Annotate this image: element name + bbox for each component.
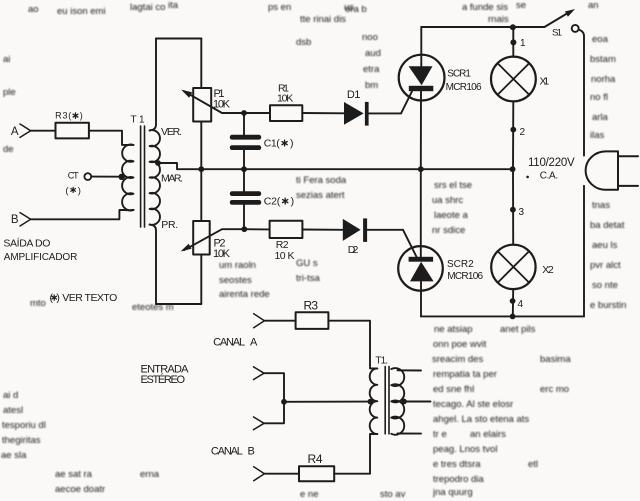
secondary bottom lead down bbox=[150, 225, 156, 304]
svg-text:bstam: bstam bbox=[590, 54, 616, 65]
svg-text:aeu ls: aeu ls bbox=[592, 240, 618, 251]
svg-text:ai: ai bbox=[3, 54, 10, 65]
wire node to X2 bbox=[512, 169, 514, 245]
lamp bus down to X1 bbox=[512, 27, 514, 57]
transformer T1 secondary winding bbox=[150, 130, 160, 225]
svg-text:B: B bbox=[248, 446, 255, 458]
svg-text:etl: etl bbox=[528, 459, 538, 470]
node dot P2/R2/C2 bbox=[241, 226, 247, 232]
svg-text:AMPLIFICADOR: AMPLIFICADOR bbox=[4, 252, 78, 263]
wire R1 to D1 bbox=[302, 112, 344, 114]
thyristor SCR1 bbox=[399, 55, 445, 101]
svg-text:D1: D1 bbox=[347, 89, 361, 101]
wire node to R2 bbox=[244, 228, 269, 230]
T1 core bbox=[140, 126, 142, 227]
plug 110/220V bbox=[586, 151, 618, 189]
svg-text:10K: 10K bbox=[213, 248, 231, 260]
node 1 dot bbox=[510, 39, 516, 45]
svg-text:e burstin: e burstin bbox=[590, 300, 626, 311]
svg-text:ti Fera soda: ti Fera soda bbox=[296, 175, 347, 186]
svg-text:eu ison emi: eu ison emi bbox=[57, 6, 106, 17]
potentiometer P1 body bbox=[193, 88, 211, 122]
canal A chevron bbox=[254, 314, 265, 328]
SCR bus MAR to SCR2 bbox=[420, 169, 422, 257]
svg-text:basima: basima bbox=[540, 354, 571, 365]
svg-text:seostes: seostes bbox=[219, 275, 252, 286]
capacitor C2 bbox=[243, 169, 245, 191]
svg-text:dsb: dsb bbox=[296, 37, 311, 48]
lower T1 core bbox=[384, 367, 386, 434]
svg-text:sto av: sto av bbox=[380, 489, 406, 500]
svg-text:lagtai co: lagtai co bbox=[130, 2, 165, 13]
svg-text:tr e: tr e bbox=[433, 429, 447, 440]
S1 terminal circle bbox=[572, 25, 579, 32]
svg-text:so nte: so nte bbox=[592, 280, 618, 291]
svg-text:SAÍDA DO: SAÍDA DO bbox=[3, 236, 50, 249]
svg-text:sreacim des: sreacim des bbox=[432, 354, 483, 365]
CT terminal circle bbox=[84, 173, 91, 180]
svg-text:an elairs: an elairs bbox=[470, 429, 506, 440]
svg-text:ae sat ra: ae sat ra bbox=[55, 469, 93, 480]
wire X1 to node 2 bbox=[512, 101, 514, 169]
svg-text:D2: D2 bbox=[348, 244, 359, 256]
resistor R3(*) bbox=[56, 123, 89, 139]
diode D1 bbox=[344, 102, 364, 125]
svg-text:10 K: 10 K bbox=[275, 250, 295, 262]
svg-text:aecoe doatr: aecoe doatr bbox=[55, 484, 105, 495]
MAR tap wire to bus bbox=[158, 163, 512, 169]
SCR2 anode lead to bottom bus bbox=[420, 281, 422, 316]
junction dot bottom bus bbox=[510, 314, 516, 320]
wire A to R3 bbox=[31, 130, 56, 132]
svg-text:A: A bbox=[250, 337, 258, 349]
secondary tap lead bbox=[404, 401, 431, 403]
junction dot C-bus/MAR bbox=[241, 166, 247, 172]
svg-text:noo: noo bbox=[362, 32, 378, 43]
svg-text:): ) bbox=[290, 138, 294, 150]
svg-text:X2: X2 bbox=[542, 264, 554, 276]
svg-text:MCR106: MCR106 bbox=[447, 271, 483, 282]
svg-text:): ) bbox=[80, 110, 83, 120]
svg-text:C2(: C2( bbox=[264, 196, 281, 208]
top bus bbox=[421, 26, 544, 28]
svg-text:2: 2 bbox=[520, 127, 526, 138]
stereo mix chevron lower bbox=[254, 417, 265, 430]
SCR1 gate wire bbox=[401, 91, 412, 113]
svg-text:CANAL: CANAL bbox=[211, 446, 243, 458]
svg-text:GU s: GU s bbox=[296, 258, 318, 269]
mix junction dot bbox=[281, 399, 287, 405]
wire CT to primary tap bbox=[91, 176, 120, 178]
svg-text:C.A.: C.A. bbox=[540, 170, 558, 181]
svg-text:ahgel. La sto etena ats: ahgel. La sto etena ats bbox=[433, 414, 529, 425]
svg-text:ba detat: ba detat bbox=[590, 220, 625, 231]
svg-text:rnais: rnais bbox=[488, 14, 509, 25]
svg-text:ilas: ilas bbox=[590, 130, 605, 141]
wire to R3 bbox=[264, 320, 295, 322]
svg-text:srs el tse: srs el tse bbox=[434, 180, 472, 191]
svg-text:mto: mto bbox=[30, 298, 46, 309]
svg-text:(: ( bbox=[65, 186, 69, 197]
svg-text:a funde sis: a funde sis bbox=[462, 2, 508, 13]
svg-text:T1.: T1. bbox=[375, 355, 388, 366]
lamp X2 bbox=[491, 245, 535, 289]
resistor R3 (lower) bbox=[296, 312, 329, 329]
svg-text:e ne: e ne bbox=[300, 489, 319, 500]
svg-text:ps en: ps en bbox=[268, 2, 291, 13]
svg-text:tnas: tnas bbox=[592, 200, 610, 211]
junction dot top bus / lamp bus bbox=[510, 24, 516, 30]
svg-text:SCR2: SCR2 bbox=[447, 259, 474, 270]
svg-text:ne atsiap: ne atsiap bbox=[434, 324, 473, 335]
lower T1 secondary winding bbox=[391, 368, 404, 435]
svg-text:anet pils: anet pils bbox=[500, 324, 536, 335]
SCR2 gate wire bbox=[403, 230, 417, 257]
svg-text:): ) bbox=[291, 196, 295, 208]
svg-text:ed sne fhl: ed sne fhl bbox=[433, 384, 474, 395]
resistor R2 bbox=[270, 221, 303, 238]
svg-text:4: 4 bbox=[518, 299, 524, 310]
svg-text:arla: arla bbox=[592, 112, 609, 123]
wire R3 to T1 primary top bbox=[328, 321, 377, 369]
svg-text:ua shrc: ua shrc bbox=[432, 195, 463, 206]
wire P2 bottom to loop bottom bbox=[200, 255, 202, 305]
wire R3 to T1 primary top bbox=[89, 131, 134, 145]
svg-text:PR.: PR. bbox=[161, 219, 178, 231]
svg-text:no fl: no fl bbox=[590, 92, 608, 103]
svg-text:ae sla: ae sla bbox=[1, 450, 27, 461]
svg-text:ita: ita bbox=[168, 0, 179, 11]
resistor R4 bbox=[299, 466, 334, 481]
svg-text:nr sdice: nr sdice bbox=[432, 225, 465, 236]
svg-text:de: de bbox=[3, 144, 14, 155]
switch S1 blade bbox=[545, 14, 568, 28]
svg-text:peag. Lnos tvol: peag. Lnos tvol bbox=[433, 444, 497, 455]
wire mix to primary tap bbox=[284, 401, 370, 403]
secondary tap dot bbox=[401, 399, 407, 405]
svg-text:10K: 10K bbox=[277, 93, 293, 105]
junction dot lamp-bus/MAR bbox=[510, 166, 516, 172]
capacitor C1 bbox=[243, 113, 245, 135]
node 3 dot bbox=[510, 207, 516, 213]
svg-text:1: 1 bbox=[520, 38, 526, 49]
resistor R1 bbox=[270, 105, 302, 121]
svg-text:C1(: C1( bbox=[264, 138, 281, 150]
svg-text:T1: T1 bbox=[131, 115, 145, 126]
svg-text:eoa: eoa bbox=[592, 34, 609, 45]
svg-text:etra: etra bbox=[363, 64, 380, 75]
diode D2 bbox=[343, 219, 361, 241]
svg-text:ple: ple bbox=[3, 87, 16, 98]
svg-text:VER.: VER. bbox=[161, 126, 182, 138]
thyristor SCR2 bbox=[398, 246, 443, 291]
svg-text:tecago. Al ste elosr: tecago. Al ste elosr bbox=[433, 399, 513, 410]
svg-text:tesporiu dl: tesporiu dl bbox=[2, 420, 46, 431]
svg-text:): ) bbox=[56, 292, 60, 304]
junction dot SCR-bus/MAR bbox=[418, 166, 424, 172]
primary tap dot bbox=[368, 399, 374, 405]
svg-text:ai d: ai d bbox=[3, 390, 18, 401]
svg-text:3: 3 bbox=[519, 207, 525, 218]
svg-text:S1: S1 bbox=[552, 27, 562, 38]
wire R2 to D2 bbox=[302, 229, 342, 231]
wire R4 to T1 primary bottom bbox=[334, 434, 377, 474]
svg-text:R4: R4 bbox=[308, 452, 323, 466]
svg-text:erna: erna bbox=[140, 469, 160, 480]
svg-text:aud: aud bbox=[365, 48, 381, 59]
svg-text:MCR106: MCR106 bbox=[446, 82, 482, 93]
wire node to R1 bbox=[244, 112, 270, 114]
svg-text:norha: norha bbox=[591, 74, 616, 85]
svg-text:um raoln: um raoln bbox=[219, 260, 256, 271]
svg-text:SCR1: SCR1 bbox=[447, 68, 471, 79]
svg-text:): ) bbox=[78, 186, 81, 197]
svg-text:atesl: atesl bbox=[3, 405, 23, 416]
SCR1 cathode lead to MAR bus bbox=[420, 91, 422, 169]
secondary bottom lead bbox=[398, 433, 422, 435]
junction dot P-bus/MAR bbox=[198, 166, 204, 172]
node 2 dot bbox=[510, 127, 516, 133]
svg-text:airenta rede: airenta rede bbox=[219, 289, 270, 300]
bottom bus bbox=[421, 315, 584, 317]
svg-text:thegiritas: thegiritas bbox=[2, 435, 41, 446]
svg-text:se: se bbox=[516, 0, 526, 11]
lamp X1 bbox=[491, 57, 536, 102]
svg-text:bm: bm bbox=[365, 80, 378, 91]
svg-text:erc mo: erc mo bbox=[540, 384, 569, 395]
node dot P1/R1/C1 bbox=[241, 110, 247, 116]
input A chevron bbox=[20, 124, 31, 137]
wire X2 to bottom bus bbox=[512, 289, 514, 316]
svg-text:R3: R3 bbox=[304, 298, 319, 312]
svg-text:onn poe wvit: onn poe wvit bbox=[433, 339, 487, 350]
wire S1 to right bus bbox=[579, 30, 584, 156]
input B chevron bbox=[20, 213, 31, 226]
secondary top lead bbox=[398, 369, 422, 371]
mix wires bbox=[264, 373, 284, 423]
svg-text:CANAL: CANAL bbox=[213, 337, 245, 349]
svg-text:VER TEXTO: VER TEXTO bbox=[62, 292, 117, 304]
wire primary bottom to B bbox=[31, 210, 134, 220]
right bus lower bbox=[583, 186, 585, 317]
potentiometer P2 body bbox=[193, 221, 210, 255]
node 4 dot bbox=[510, 298, 516, 304]
P2 wiper arrow bbox=[184, 229, 244, 250]
svg-text:A: A bbox=[11, 126, 19, 138]
svg-text:B: B bbox=[11, 214, 19, 226]
svg-text:X1: X1 bbox=[540, 75, 550, 87]
MAR tap dot bbox=[155, 160, 161, 166]
stereo mix chevron upper bbox=[254, 367, 265, 380]
canal B chevron bbox=[254, 467, 265, 481]
svg-text:rempatia ta per: rempatia ta per bbox=[433, 369, 497, 380]
svg-text:jna quurg: jna quurg bbox=[432, 487, 473, 498]
transformer T1 primary winding bbox=[122, 145, 133, 211]
SCR1 anode lead bbox=[420, 27, 422, 66]
svg-text:tri-tsa: tri-tsa bbox=[296, 273, 320, 284]
svg-text:MAR.: MAR. bbox=[161, 173, 183, 185]
svg-text:tte rinai dis: tte rinai dis bbox=[300, 14, 346, 25]
svg-text:ESTÉREO: ESTÉREO bbox=[141, 373, 186, 386]
svg-text:sezias atert: sezias atert bbox=[296, 190, 345, 201]
svg-text:pvr alct: pvr alct bbox=[590, 260, 621, 271]
primary center-tap dot bbox=[119, 174, 125, 180]
loop rectangle bottom bbox=[156, 303, 201, 305]
secondary top lead up to loop top bbox=[150, 39, 156, 131]
svg-text:10K: 10K bbox=[213, 99, 231, 111]
svg-text:an: an bbox=[588, 0, 599, 11]
svg-text:C T: C T bbox=[68, 170, 79, 180]
svg-text:laeote a: laeote a bbox=[434, 210, 469, 221]
svg-text:R3(: R3( bbox=[55, 110, 71, 120]
svg-text:trepodro dia: trepodro dia bbox=[433, 474, 484, 485]
wire to R4 bbox=[264, 473, 299, 475]
svg-text:110/220V: 110/220V bbox=[528, 157, 575, 169]
wire P1 bottom to P2 top bbox=[200, 122, 202, 222]
svg-text:us: us bbox=[344, 2, 354, 13]
P1 wiper arrow bbox=[184, 91, 244, 113]
right side down to P1 bbox=[200, 39, 202, 89]
lower T1 primary winding bbox=[370, 368, 378, 434]
loop rectangle top bbox=[156, 38, 201, 40]
svg-text:ao: ao bbox=[28, 4, 39, 15]
svg-text:e tres dtsra: e tres dtsra bbox=[433, 459, 481, 470]
